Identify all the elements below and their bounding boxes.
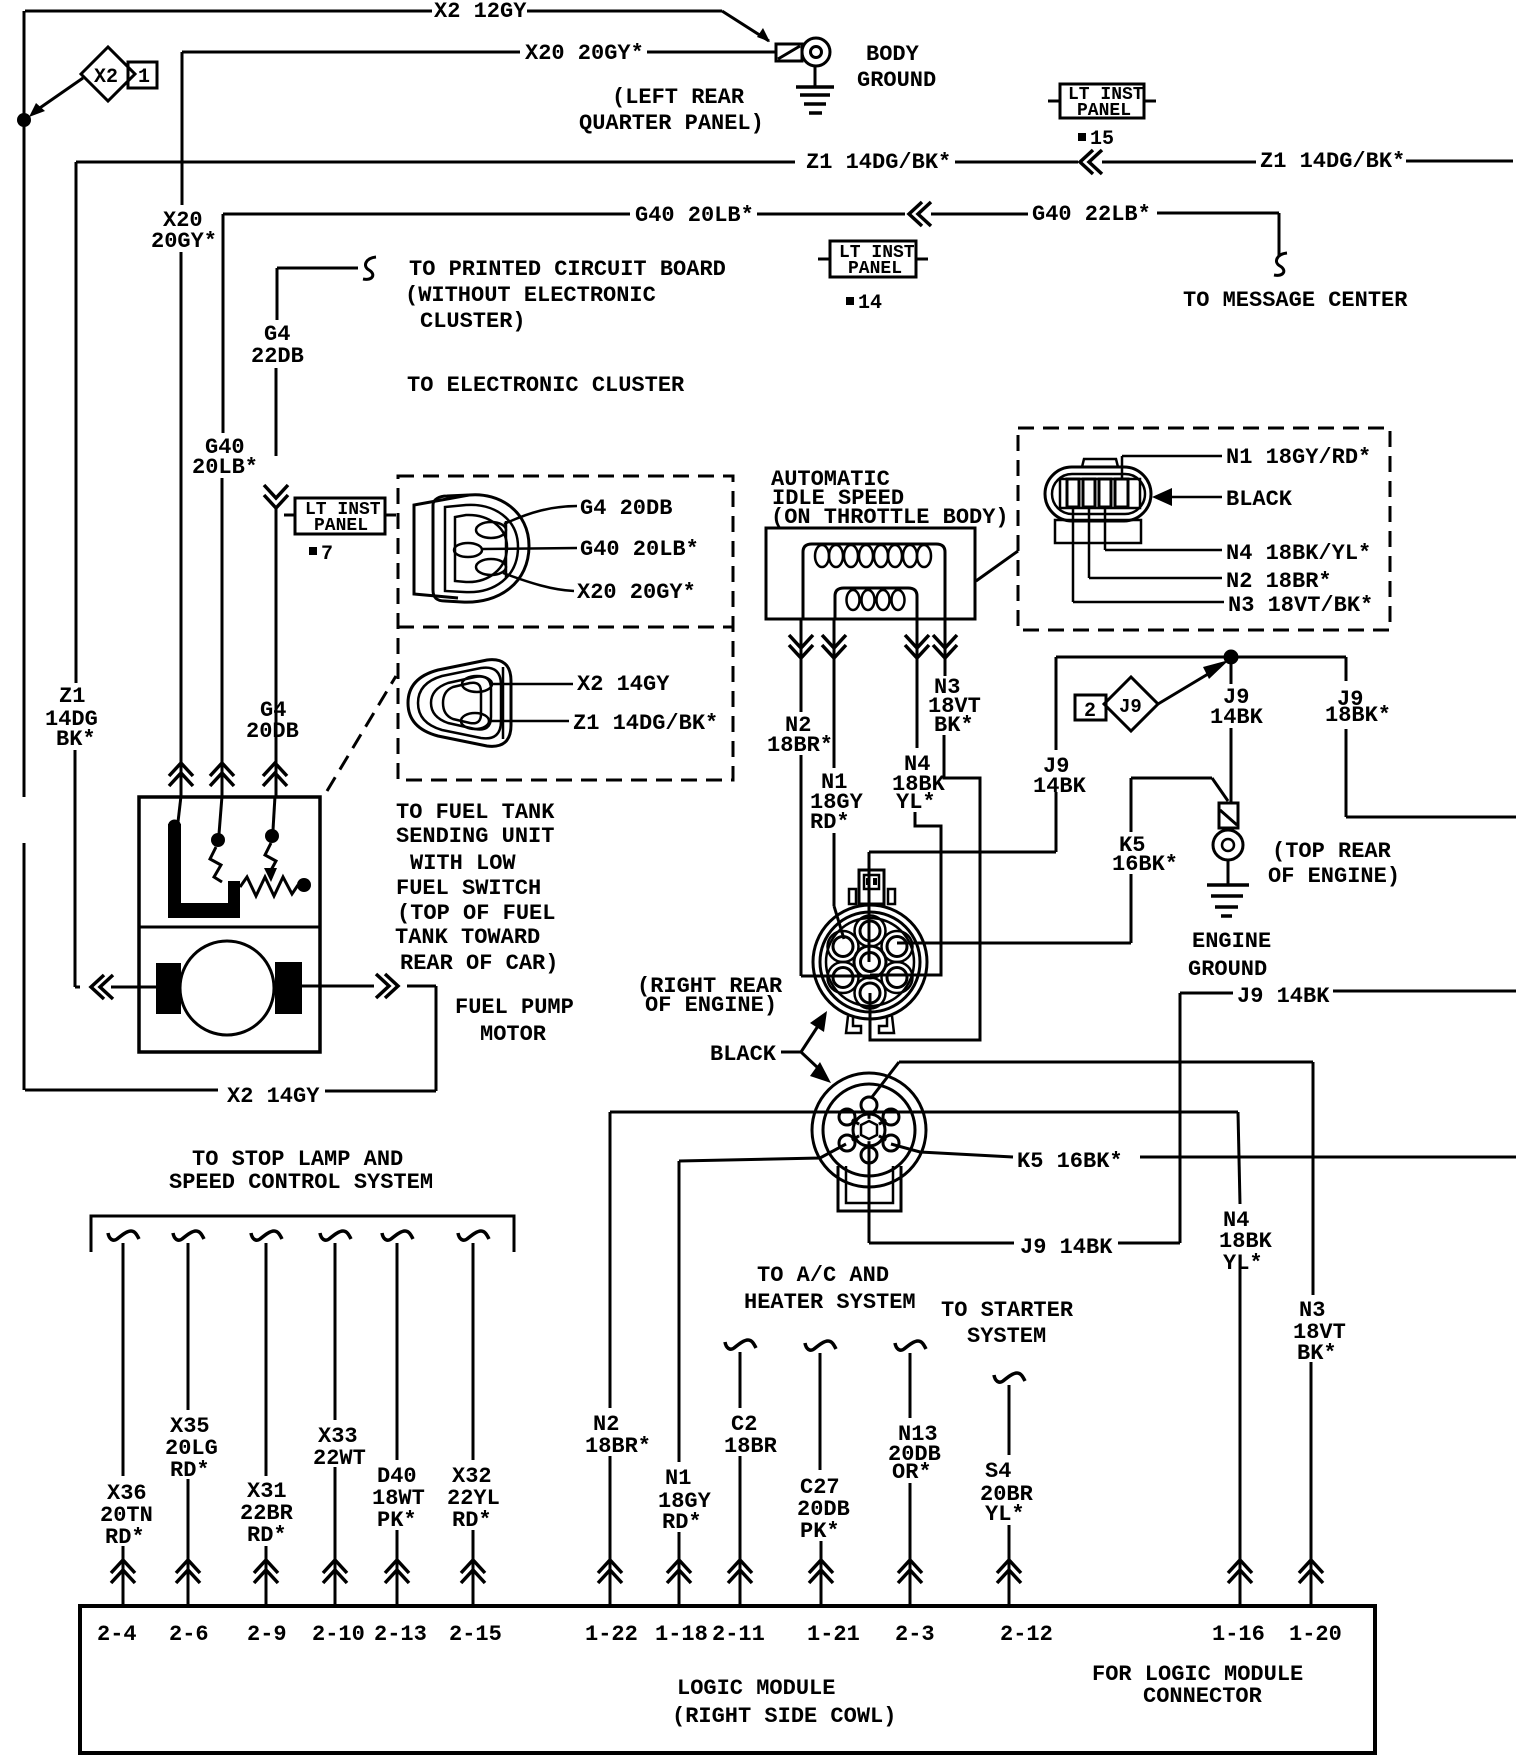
wire G4 22DB horizontal <box>277 267 358 270</box>
svg-text:X2 12GY: X2 12GY <box>434 0 527 24</box>
wire end hook x123 <box>108 1231 139 1240</box>
svg-text:TO A/C AND: TO A/C AND <box>757 1263 889 1288</box>
connector chevrons N1 <box>822 635 846 658</box>
svg-text:X2 14GY: X2 14GY <box>227 1084 320 1109</box>
connector chevrons logic pin x397 <box>385 1560 409 1583</box>
svg-text:7: 7 <box>321 543 333 566</box>
wire Z1 horizontal left <box>76 161 795 164</box>
wire X31 lower <box>265 1546 268 1606</box>
terminal stem <box>1227 860 1230 884</box>
connector A pin G40 <box>454 543 482 557</box>
wire N2 drop lower <box>800 755 803 976</box>
svg-text:14BK: 14BK <box>1033 774 1087 799</box>
svg-text:2-9: 2-9 <box>247 1622 287 1647</box>
connector C cap tab left <box>849 889 856 904</box>
fusible link box <box>1219 803 1238 828</box>
AIS connector pin holder <box>1060 479 1140 508</box>
arrowhead at body ground <box>757 28 770 42</box>
ground bar 1 <box>796 85 834 89</box>
svg-text:TO MESSAGE CENTER: TO MESSAGE CENTER <box>1183 288 1408 313</box>
fuel sender bar rounded top <box>168 820 181 833</box>
component box LT INST PANEL 7 <box>295 498 385 534</box>
svg-text:J9 14BK: J9 14BK <box>1020 1235 1113 1260</box>
node J9 junction dot <box>1224 650 1239 665</box>
svg-text:1-18: 1-18 <box>655 1622 708 1647</box>
connector symbol J9 diamond <box>1104 677 1158 731</box>
wire break squiggle message center <box>1274 253 1287 275</box>
stub left panel 7 <box>284 514 295 517</box>
leader Z1 14DG/BK* <box>489 720 569 723</box>
wire Z1 vertical rail lower <box>74 750 77 987</box>
leader BLACK fork <box>781 1051 801 1054</box>
connector C pin petals <box>828 916 913 1009</box>
wire X35 upper <box>187 1243 190 1410</box>
connector chevrons N2 <box>789 635 813 658</box>
wire X32 upper <box>472 1243 475 1460</box>
svg-text:2-6: 2-6 <box>169 1622 209 1647</box>
svg-text:2: 2 <box>1084 700 1096 723</box>
AIS connector pin 1 <box>1067 479 1079 507</box>
wire G4 vertical segment <box>275 368 278 456</box>
connector C cap pin a <box>866 878 870 885</box>
arrow J9 diamond to junction <box>1158 668 1218 704</box>
body ground Z-box diagonal <box>778 46 800 59</box>
wire break squiggle printed circuit board <box>363 257 376 279</box>
wire N2 lower gap <box>609 1456 612 1606</box>
svg-text:REAR OF CAR): REAR OF CAR) <box>400 951 558 976</box>
svg-text:QUARTER PANEL): QUARTER PANEL) <box>579 111 764 136</box>
svg-text:18BK*: 18BK* <box>1325 703 1391 728</box>
connector C foot left <box>846 1016 861 1033</box>
arrowhead BLACK <box>1152 488 1172 506</box>
wire X31 upper <box>265 1243 268 1476</box>
svg-text:2-11: 2-11 <box>712 1622 765 1647</box>
wire X2 14GY riser <box>435 986 438 1091</box>
wire J9 18BK* to right edge <box>1346 816 1516 819</box>
svg-text:18BR: 18BR <box>724 1434 778 1459</box>
svg-text:FUEL SWITCH: FUEL SWITCH <box>396 876 541 901</box>
wire N3 from AIS <box>944 619 947 676</box>
svg-text:K5 16BK*: K5 16BK* <box>1017 1149 1123 1174</box>
svg-text:PANEL: PANEL <box>1077 101 1131 121</box>
wire K5 drop lower <box>1130 874 1133 943</box>
wire J9 through connector C <box>868 905 871 962</box>
AIS connector body below <box>1055 520 1141 543</box>
connector D inner ring <box>823 1084 915 1176</box>
stub left panel 14 <box>818 258 830 261</box>
logic module box <box>80 1606 1375 1753</box>
svg-text:BK*: BK* <box>934 713 974 738</box>
wire end hook x473 <box>458 1231 489 1240</box>
wire N3 drop <box>1312 1062 1315 1295</box>
wire J9 bottom horizontal <box>869 1242 1014 1245</box>
svg-text:TO PRINTED CIRCUIT BOARD: TO PRINTED CIRCUIT BOARD <box>409 257 726 282</box>
svg-text:WITH LOW: WITH LOW <box>410 851 516 876</box>
svg-text:SENDING UNIT: SENDING UNIT <box>396 824 554 849</box>
wire to AC heater through connector D <box>610 1111 1238 1114</box>
lead N4 horizontal <box>1105 549 1222 552</box>
wire N4 jog <box>870 812 941 975</box>
connector chevrons G40 at pump <box>210 763 234 786</box>
svg-text:YL*: YL* <box>985 1502 1025 1527</box>
fuel pump divider <box>139 926 320 929</box>
svg-text:N3 18VT/BK*: N3 18VT/BK* <box>1228 593 1373 618</box>
connector B pin X2 <box>462 676 492 692</box>
wire Z1 to right edge <box>1406 160 1513 163</box>
wire N13 lower <box>909 1483 912 1606</box>
svg-text:(ON THROTTLE BODY): (ON THROTTLE BODY) <box>771 505 1009 530</box>
wire J9 to connector horizontal <box>869 851 1056 854</box>
svg-text:22DB: 22DB <box>251 344 304 369</box>
svg-text:RD*: RD* <box>247 1523 287 1548</box>
AIS connector outer shell <box>1045 467 1151 521</box>
wire N1 from AIS <box>833 619 836 768</box>
svg-text:X2 14GY: X2 14GY <box>577 672 670 697</box>
svg-text:2-15: 2-15 <box>449 1622 502 1647</box>
svg-text:(TOP REAR: (TOP REAR <box>1272 839 1392 864</box>
svg-text:TO STARTER: TO STARTER <box>941 1298 1074 1323</box>
connector C center pin ring <box>854 946 886 978</box>
wire K5 drop upper <box>1130 778 1133 832</box>
svg-text:CONNECTOR: CONNECTOR <box>1143 1684 1263 1709</box>
wire G40 mid segment <box>757 213 905 216</box>
connector chevrons G4 at pump <box>263 763 287 786</box>
svg-text:SPEED CONTROL SYSTEM: SPEED CONTROL SYSTEM <box>169 1170 433 1195</box>
svg-text:20DB: 20DB <box>246 719 299 744</box>
connector chevrons logic pin x1009 <box>997 1560 1021 1583</box>
component box LT INST PANEL 15 <box>1060 84 1144 118</box>
svg-text:20LB*: 20LB* <box>192 455 258 480</box>
leader X2 14GY <box>492 683 573 686</box>
svg-text:S4: S4 <box>985 1459 1011 1484</box>
svg-text:Z1 14DG/BK*: Z1 14DG/BK* <box>1260 149 1405 174</box>
svg-text:X20 20GY*: X20 20GY* <box>525 41 644 66</box>
wire N3 jog upper <box>870 735 980 1040</box>
connector C center pin <box>861 953 880 972</box>
svg-text:X20 20GY*: X20 20GY* <box>577 580 696 605</box>
terminal eyelet inner <box>1222 839 1234 851</box>
fuel pump motor brush left <box>156 963 181 1014</box>
svg-text:BK*: BK* <box>56 727 96 752</box>
wire J9 right drop upper <box>1345 657 1348 681</box>
lead N1 vertical <box>1121 456 1124 479</box>
wire J9 into connector <box>868 852 871 905</box>
svg-text:PK*: PK* <box>800 1519 840 1544</box>
svg-text:TO ELECTRONIC CLUSTER: TO ELECTRONIC CLUSTER <box>407 373 685 398</box>
svg-text:RD*: RD* <box>662 1510 702 1535</box>
connector B outer shell <box>408 660 511 747</box>
dashed detail box AIS connector <box>1018 428 1390 630</box>
connector C foot right <box>879 1016 894 1033</box>
wire end hook N13 <box>895 1341 926 1350</box>
connector chevrons logic pin x266 <box>254 1560 278 1583</box>
wire X36 upper <box>122 1243 125 1476</box>
connector chevrons N4 <box>905 635 929 658</box>
AIS coil 1 frame <box>803 544 945 619</box>
label #14 marker <box>846 297 854 305</box>
wire J9 14BK to right edge <box>1333 990 1516 993</box>
ground bar 3 <box>804 102 826 106</box>
connector A cavity line <box>505 521 508 578</box>
connector chevrons fuel pump right <box>376 974 398 998</box>
fuel gauge contact dot <box>265 829 279 843</box>
lead N2 horizontal <box>1089 577 1222 580</box>
leader X20 20GY* <box>503 573 574 591</box>
AIS connector inner shell <box>1052 474 1145 514</box>
lead N3 vertical <box>1072 507 1075 602</box>
wire X36 lower <box>122 1546 125 1606</box>
connector chevrons logic pin x910 <box>898 1560 922 1583</box>
connector D bracket outer <box>838 1166 901 1211</box>
wire heater corner drop <box>609 1112 612 1408</box>
svg-text:Z1 14DG/BK*: Z1 14DG/BK* <box>806 150 951 175</box>
arrowhead to junction dot <box>29 103 45 117</box>
wire end hook S4 <box>994 1373 1025 1382</box>
wire N2 from AIS <box>800 619 803 712</box>
svg-text:J9: J9 <box>1119 696 1142 718</box>
wire J9 bottom riser <box>1179 993 1182 1243</box>
wire J9 upper dashes <box>1180 992 1233 995</box>
svg-text:X2: X2 <box>94 66 118 89</box>
dashed leader to fuel pump <box>327 676 396 791</box>
stub left panel 15 <box>1048 100 1060 103</box>
AIS connector pin 2 <box>1083 479 1095 507</box>
body ground eyelet inner <box>811 47 822 58</box>
connector C cap pin b <box>873 878 877 885</box>
connector C top cap inner <box>864 875 879 889</box>
connector chevrons logic pin x1311 <box>1299 1560 1323 1583</box>
connector chevrons logic pin x473 <box>461 1560 485 1583</box>
connector chevrons fuel pump left <box>91 975 113 999</box>
wire N4 from AIS <box>916 619 919 748</box>
svg-text:CLUSTER): CLUSTER) <box>420 309 526 334</box>
connector B pin Z1 <box>461 713 489 729</box>
dashed divider fuel connector box <box>398 626 733 629</box>
wire N13 upper <box>909 1353 912 1418</box>
wire J9 bus horizontal <box>1056 656 1346 659</box>
lead N1 horizontal <box>1122 455 1222 458</box>
fuel sender bar horizontal <box>168 903 240 918</box>
wire N1 lower gap <box>678 1532 681 1606</box>
svg-text:2-12: 2-12 <box>1000 1622 1053 1647</box>
connector chevrons logic pin x610 <box>598 1560 622 1583</box>
svg-text:G40 20LB*: G40 20LB* <box>635 203 754 228</box>
svg-text:SYSTEM: SYSTEM <box>967 1324 1046 1349</box>
wire G40 22LB* drop <box>1278 213 1281 256</box>
stub right panel 15 <box>1144 100 1156 103</box>
AIS leader diagonal to connector box <box>976 551 1018 581</box>
connector C ring 3 <box>826 918 914 1006</box>
connector C outer ring <box>813 905 927 1019</box>
wire G4 vertical rail <box>275 508 278 796</box>
connector D center ring <box>853 1114 885 1146</box>
arrowhead BLACK lower <box>810 1062 831 1083</box>
svg-text:1: 1 <box>138 66 150 89</box>
svg-text:ENGINE: ENGINE <box>1192 929 1271 954</box>
leader G4 20DB <box>504 506 577 524</box>
wire J9 right drop lower <box>1345 729 1348 817</box>
wire J9 left drop lower <box>1055 792 1058 852</box>
svg-text:(LEFT REAR: (LEFT REAR <box>612 85 745 110</box>
low fuel switch contact dot <box>211 833 225 847</box>
connector chevrons X20 at pump <box>169 763 193 786</box>
wire G40 22LB* to corner <box>1157 212 1279 215</box>
svg-text:14: 14 <box>858 292 882 315</box>
wire end hook C27 <box>805 1341 836 1350</box>
wire N3 diagonal from connector D <box>872 1062 899 1097</box>
svg-text:G40 20LB*: G40 20LB* <box>580 537 699 562</box>
svg-text:MOTOR: MOTOR <box>480 1022 547 1047</box>
wire J9 left drop upper <box>1055 657 1058 750</box>
AIS connector pin 4 <box>1115 479 1128 507</box>
stub right panel 7 <box>385 514 396 517</box>
wire X20 vertical rail <box>180 252 183 796</box>
svg-text:HEATER SYSTEM: HEATER SYSTEM <box>744 1290 916 1315</box>
svg-text:RD*: RD* <box>170 1458 210 1483</box>
fusible link diagonal <box>1220 810 1237 825</box>
AIS coil 1 loops <box>815 545 931 567</box>
wire end hook x335 <box>320 1231 351 1240</box>
wire G40 vertical rail <box>221 478 224 796</box>
svg-text:15: 15 <box>1090 128 1114 151</box>
node X2 splice junction dot <box>17 113 31 127</box>
wire X2 12GY continues to body ground <box>527 10 722 13</box>
wire motor left lead <box>111 986 157 989</box>
wire motor right lead <box>301 985 374 988</box>
arrow BLACK lower <box>801 1052 818 1068</box>
svg-text:G4 20DB: G4 20DB <box>580 496 672 521</box>
svg-text:RD*: RD* <box>452 1508 492 1533</box>
AIS connector pin 3 <box>1099 479 1111 507</box>
dashed detail box fuel tank connectors <box>398 476 733 780</box>
arrow BLACK upper <box>801 1026 818 1052</box>
tag box 1 <box>128 62 157 88</box>
svg-text:GROUND: GROUND <box>857 68 936 93</box>
wire K5 horizontal <box>1131 777 1212 780</box>
svg-text:BK*: BK* <box>1297 1341 1337 1366</box>
wire C27 upper <box>819 1353 822 1470</box>
svg-text:PK*: PK* <box>377 1508 417 1533</box>
connector C cap tab right <box>888 889 895 904</box>
connector chevrons G4 at panel 7 <box>264 485 288 508</box>
svg-text:TO STOP LAMP AND: TO STOP LAMP AND <box>192 1147 403 1172</box>
wire G40 vertical upper <box>222 214 225 433</box>
connector B mid shell <box>418 668 501 739</box>
svg-text:OR*: OR* <box>892 1460 932 1485</box>
leader G40 20LB* <box>482 548 577 549</box>
wire K5 diagonal from link <box>1212 778 1228 801</box>
wire N3 long horizontal <box>899 1061 1313 1064</box>
wire motor right to corner <box>407 985 436 988</box>
low fuel switch arm <box>210 847 222 882</box>
connector D center hex <box>861 1121 877 1139</box>
wire X2 12GY top horizontal <box>25 10 432 13</box>
label #15 marker <box>1078 133 1086 141</box>
connector A pin X20 <box>476 559 506 575</box>
svg-text:(RIGHT SIDE COWL): (RIGHT SIDE COWL) <box>672 1704 896 1729</box>
wire Z1 vertical rail upper <box>75 162 78 683</box>
wire X32 lower <box>472 1530 475 1606</box>
wire N1 into connector C <box>834 906 844 939</box>
svg-text:FUEL PUMP: FUEL PUMP <box>455 995 574 1020</box>
svg-text:1-21: 1-21 <box>807 1622 860 1647</box>
wire K5 from connector D <box>891 1144 1013 1157</box>
ground bar 2 <box>800 93 830 97</box>
connector C outer pins <box>833 921 907 1003</box>
arrow from X2 diamond to junction <box>34 78 83 112</box>
AIS connector top tab <box>1082 459 1118 467</box>
wire D40 lower <box>396 1530 399 1606</box>
wire end hook x397 <box>382 1231 413 1240</box>
wire N4 bottom upper <box>1238 1112 1240 1204</box>
arrowhead BLACK upper <box>810 1011 827 1032</box>
svg-text:1-20: 1-20 <box>1289 1622 1342 1647</box>
ground bar 4 <box>809 111 822 115</box>
wire N3 bottom lower <box>1310 1362 1313 1606</box>
svg-text:(TOP OF FUEL: (TOP OF FUEL <box>397 901 555 926</box>
connector chevrons Z1 at panel 15 <box>1080 150 1102 174</box>
wire X2 14GY bottom left <box>25 1089 218 1092</box>
wire J9 center drop lower <box>1230 728 1233 802</box>
wire G4 vertical upper <box>276 268 279 320</box>
svg-text:PANEL: PANEL <box>848 259 902 279</box>
fuel pump motor brush right <box>275 962 302 1014</box>
svg-text:14BK: 14BK <box>1210 705 1264 730</box>
AIS coil 2 loops <box>847 590 905 610</box>
svg-text:OF ENGINE): OF ENGINE) <box>645 993 777 1018</box>
sender resistor end dot <box>297 878 311 892</box>
connector chevrons logic pin x740 <box>728 1560 752 1583</box>
wire X33 lower <box>334 1467 337 1606</box>
wire C27 lower <box>820 1541 823 1606</box>
wire N2 into connector C <box>801 975 870 978</box>
svg-text:18BR*: 18BR* <box>585 1434 651 1459</box>
connector D pins <box>839 1097 899 1163</box>
connector chevrons N3 <box>933 635 957 658</box>
component box LT INST PANEL 14 <box>830 241 916 277</box>
svg-text:N4 18BK/YL*: N4 18BK/YL* <box>1226 541 1371 566</box>
connector D outer ring <box>812 1073 926 1187</box>
wire N1 drop lower <box>833 833 836 906</box>
AIS motor box <box>766 528 975 619</box>
connector C ring 2 <box>820 912 920 1012</box>
svg-text:Z1: Z1 <box>59 684 85 709</box>
lead N4 vertical <box>1104 507 1107 550</box>
svg-text:OF ENGINE): OF ENGINE) <box>1268 864 1400 889</box>
wire K5 to connector <box>897 942 1131 945</box>
engine ground bar 1 <box>1207 883 1249 887</box>
wire J9 through connector D <box>868 1146 871 1243</box>
svg-text:RD*: RD* <box>105 1525 145 1550</box>
engine ground bar 3 <box>1215 905 1238 909</box>
svg-text:2-10: 2-10 <box>312 1622 365 1647</box>
wire G40 20LB* horizontal <box>223 213 630 216</box>
svg-text:G40 22LB*: G40 22LB* <box>1032 202 1151 227</box>
svg-text:1-22: 1-22 <box>585 1622 638 1647</box>
wire end hook x266 <box>251 1231 282 1240</box>
connector A pin G4 <box>476 522 506 538</box>
lead N3 horizontal <box>1073 601 1224 604</box>
svg-text:N1 18GY/RD*: N1 18GY/RD* <box>1226 445 1371 470</box>
svg-text:(WITHOUT ELECTRONIC: (WITHOUT ELECTRONIC <box>405 283 656 308</box>
connector C top cap outer <box>859 870 884 904</box>
wire X2 14GY bottom right <box>325 1090 436 1093</box>
connector chevrons logic pin x821 <box>809 1560 833 1583</box>
svg-text:PANEL: PANEL <box>314 516 368 536</box>
svg-text:TO FUEL TANK: TO FUEL TANK <box>396 800 555 825</box>
wire Z1 into chevron <box>75 986 80 989</box>
connector D bracket inner <box>846 1166 893 1203</box>
